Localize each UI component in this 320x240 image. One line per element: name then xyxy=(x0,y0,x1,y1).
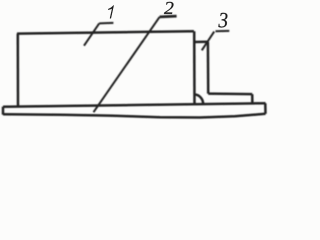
base plate 2: top edge xyxy=(3,103,266,107)
underline of label 2 xyxy=(160,15,177,18)
angle 3: right edge of horizontal arm xyxy=(251,94,254,104)
angle 3: right edge of vertical leg xyxy=(207,42,210,94)
label digit 3 xyxy=(218,13,227,28)
leader line for label 2 xyxy=(94,17,160,112)
block detail 1: right edge xyxy=(193,31,196,104)
block detail 1: top edge xyxy=(17,31,194,33)
label digit 1 xyxy=(108,6,113,19)
base plate 2: bottom edge xyxy=(3,114,266,118)
leader line for label 3 xyxy=(202,32,214,51)
block detail 1: left edge xyxy=(17,34,20,107)
underline of label 3 xyxy=(216,30,230,32)
base plate 2: right edge xyxy=(264,103,267,114)
leader line for label 1 xyxy=(84,23,99,45)
fillet arc at angle foot xyxy=(195,95,204,105)
angle 3: top edge of vertical leg xyxy=(194,41,208,44)
angle 3: top edge of horizontal arm xyxy=(208,92,252,95)
technical drawing: block (1) and angle bracket (3) on base plate (2) xyxy=(0,0,278,128)
label digit 2 xyxy=(164,2,173,14)
underline of label 1 xyxy=(99,22,113,25)
base plate 2: left edge xyxy=(2,107,5,115)
